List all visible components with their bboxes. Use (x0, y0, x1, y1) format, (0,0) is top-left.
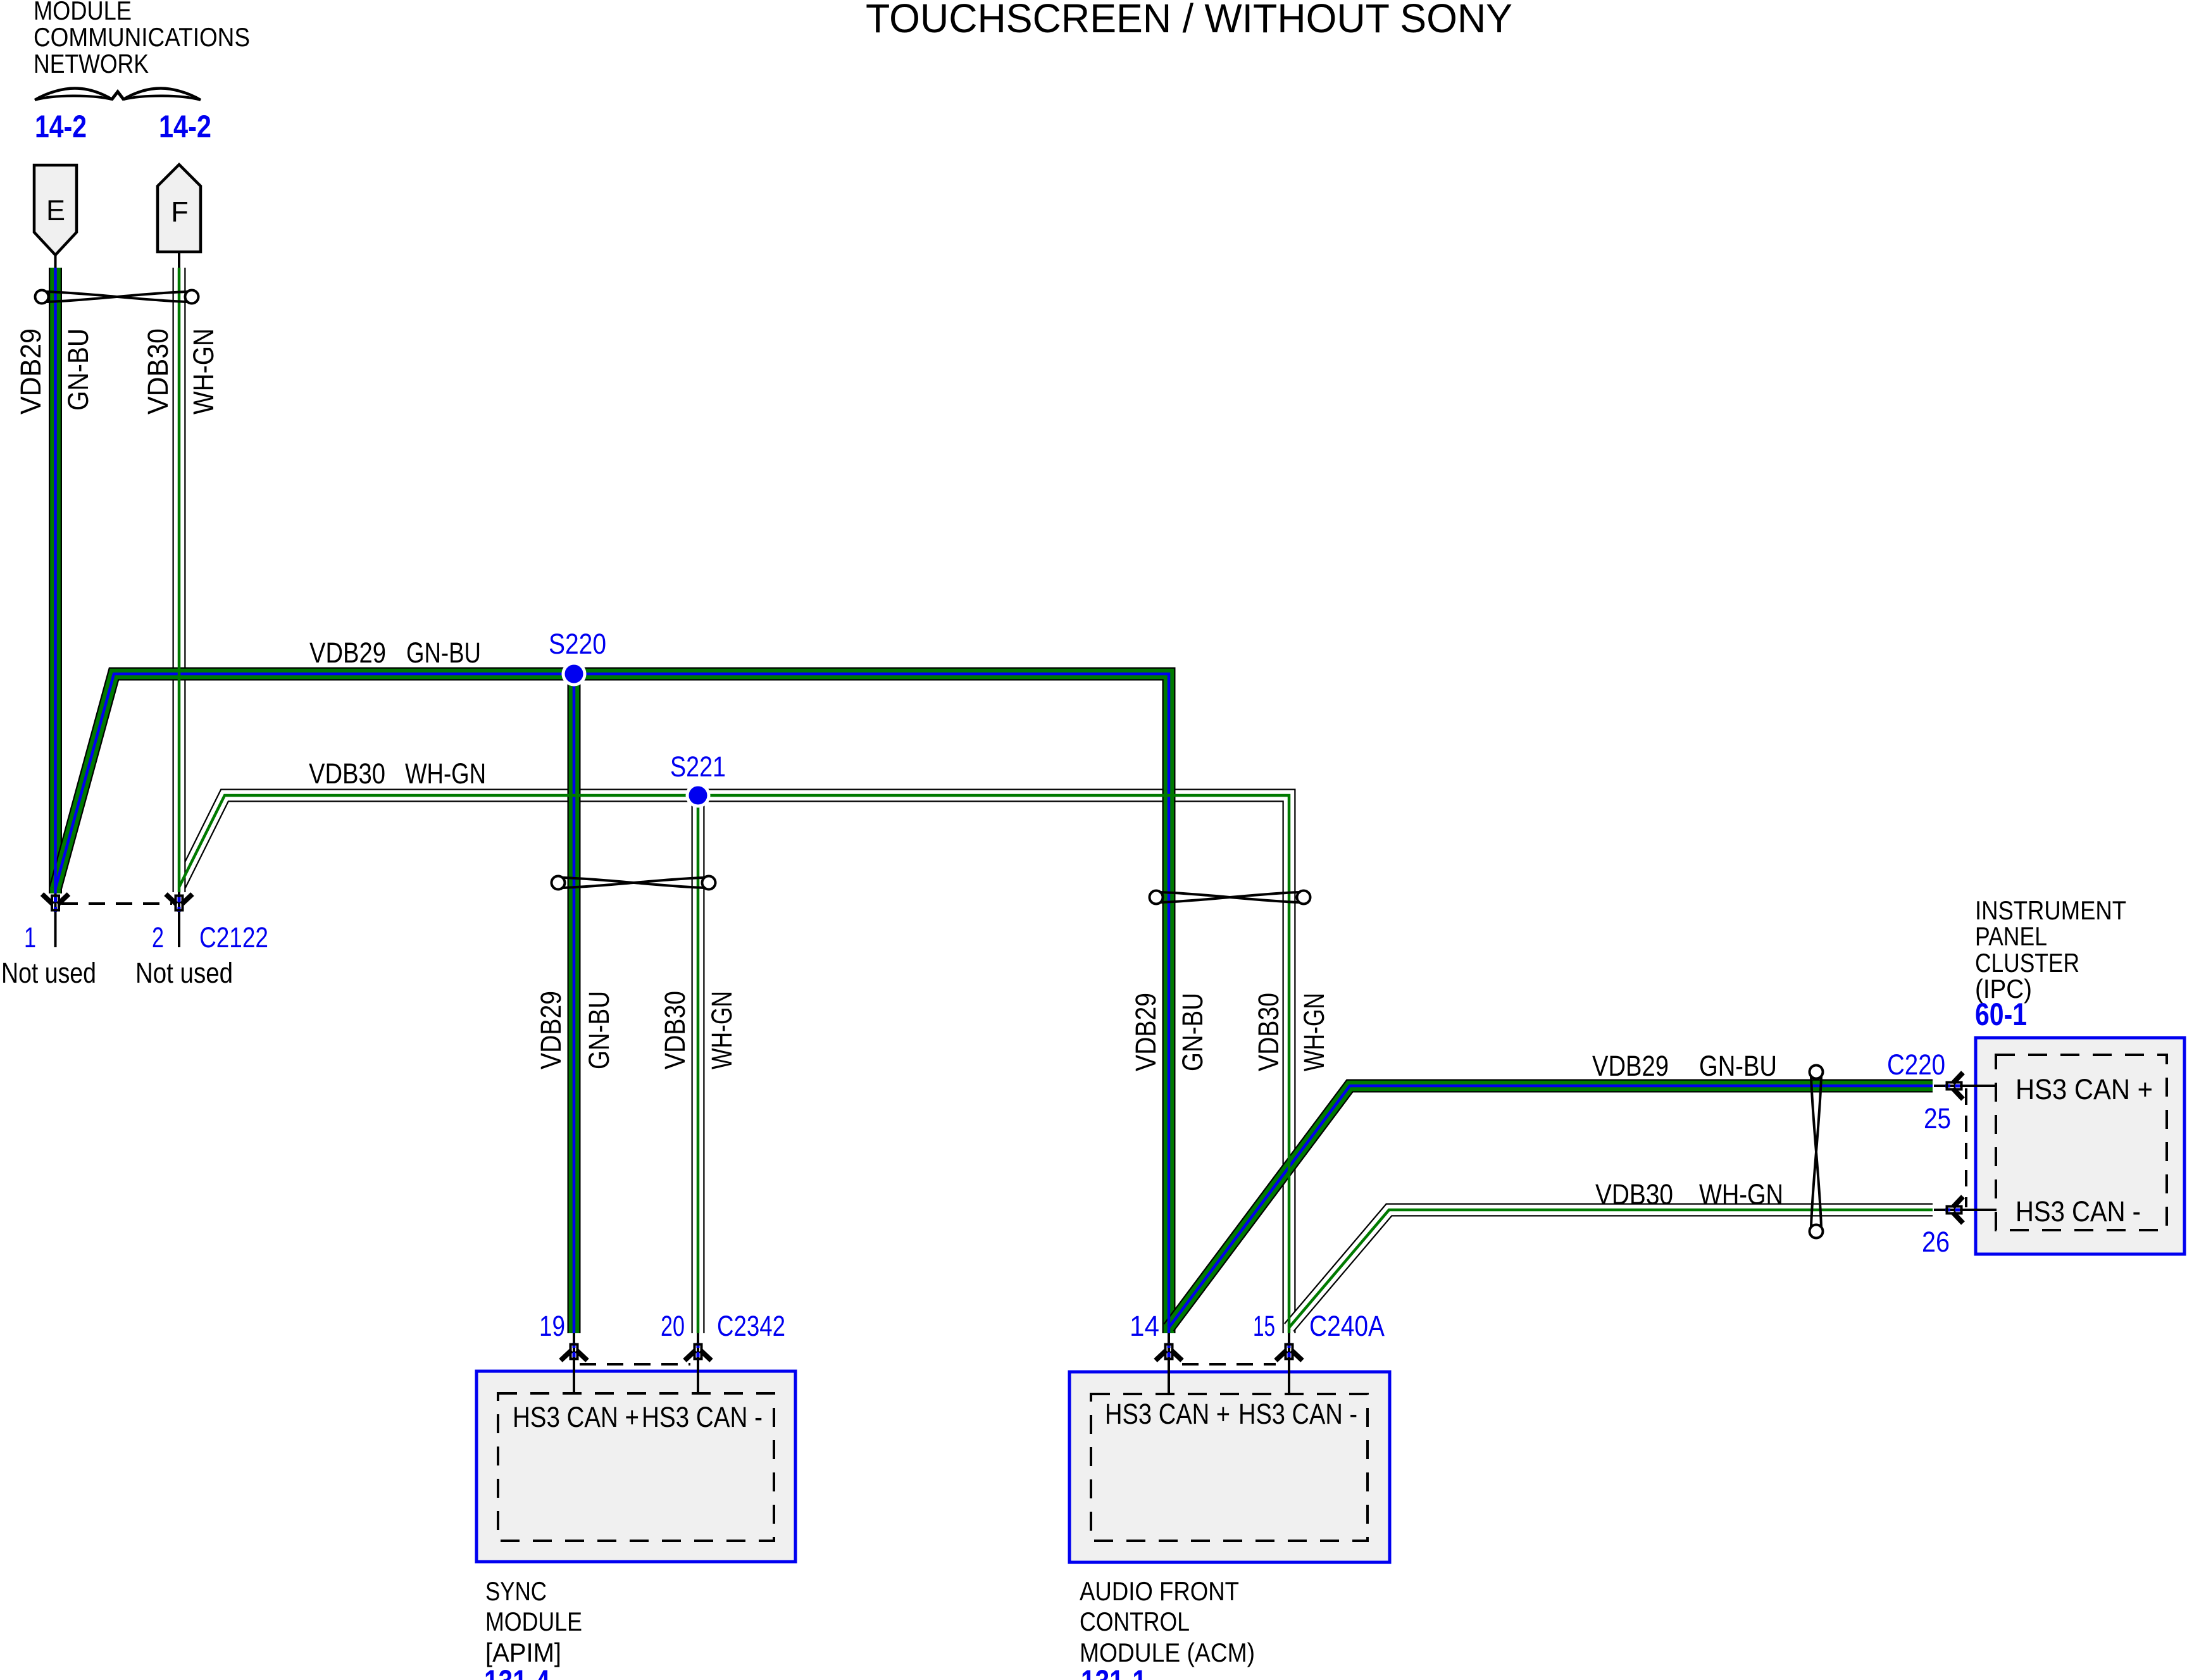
wire VDB30 WH-GN main run body (F to ACM) (179, 795, 1289, 1333)
svg-text:VDB29: VDB29 (309, 637, 386, 669)
svg-text:INSTRUMENT: INSTRUMENT (1975, 895, 2126, 925)
svg-text:WH-GN: WH-GN (187, 328, 220, 414)
svg-text:GN-BU: GN-BU (62, 328, 94, 411)
wire stripe GN (IPC run 26) (1289, 1210, 1933, 1328)
svg-text:S221: S221 (670, 750, 726, 783)
svg-text:SYNC: SYNC (485, 1576, 547, 1606)
wire label VDB29 GN-BU (top run) (309, 637, 481, 669)
svg-text:VDB30: VDB30 (142, 328, 174, 414)
terminal pin 15 (C240A) (1276, 1333, 1302, 1394)
svg-text:VDB29: VDB29 (535, 991, 567, 1069)
svg-text:HS3 CAN +: HS3 CAN + (1105, 1398, 1230, 1430)
svg-text:20: 20 (661, 1310, 685, 1342)
terminal pin 26 (C220) (1934, 1197, 1997, 1223)
svg-text:GN-BU: GN-BU (1699, 1050, 1777, 1082)
wire VDB30 WH-GN vertical body from F (173, 268, 186, 892)
splice S220 (563, 663, 585, 685)
dashed connector link C220 (1965, 1088, 1967, 1207)
wire stub from F (178, 251, 180, 268)
svg-text:14: 14 (1130, 1310, 1159, 1342)
svg-text:HS3 CAN -: HS3 CAN - (2016, 1195, 2141, 1228)
dashed connector link C240A (1182, 1363, 1276, 1366)
connector E symbol (34, 165, 77, 268)
svg-text:C240A: C240A (1309, 1310, 1385, 1342)
svg-text:TOUCHSCREEN / WITHOUT SONY: TOUCHSCREEN / WITHOUT SONY (866, 0, 1512, 41)
svg-text:S220: S220 (549, 628, 606, 660)
terminal pin 14 (C240A) (1156, 1333, 1182, 1394)
svg-text:MODULE: MODULE (485, 1607, 582, 1636)
SYNC module box (477, 1371, 795, 1562)
svg-text:Not used: Not used (1, 957, 96, 989)
svg-text:14-2: 14-2 (159, 109, 211, 144)
ACM module box (1069, 1372, 1390, 1562)
svg-text:[APIM]: [APIM] (485, 1638, 561, 1667)
wire stripe BU (IPC run 25) (1169, 1086, 1933, 1328)
svg-text:C2342: C2342 (717, 1310, 785, 1342)
wire stripe GN (S221 drop) (697, 795, 700, 1333)
wire label VDB30 WH-GN (IPC run) (1595, 1178, 1783, 1210)
connector F symbol (158, 165, 201, 268)
svg-text:2: 2 (152, 921, 164, 954)
SYNC module label (484, 1576, 582, 1680)
ACM module label (1080, 1576, 1255, 1680)
svg-text:15: 15 (1253, 1310, 1275, 1342)
svg-text:1: 1 (24, 921, 36, 954)
svg-text:131-1: 131-1 (1081, 1664, 1147, 1680)
svg-text:WH-GN: WH-GN (1699, 1178, 1783, 1210)
wire VDB30 WH-GN run body to IPC pin 26 (1289, 1210, 1933, 1328)
svg-text:VDB30: VDB30 (309, 757, 385, 790)
svg-text:NETWORK: NETWORK (34, 49, 149, 78)
terminal pin 20 (C2342) (685, 1333, 711, 1393)
svg-text:Not used: Not used (135, 957, 233, 989)
wire stub from E (54, 254, 57, 268)
wire stripe GN (WH-GN main run) (179, 795, 1289, 1333)
label MODULE COMMUNICATIONS NETWORK (34, 0, 250, 78)
terminal pin 25 (C220) (1934, 1073, 1997, 1099)
svg-text:HS3 CAN +: HS3 CAN + (513, 1401, 639, 1433)
twisted pair symbol TP3 (ACM drops) (1150, 891, 1311, 904)
wire stripe GN (F vertical) (178, 268, 181, 892)
brace (35, 89, 201, 101)
svg-text:60-1: 60-1 (1975, 997, 2027, 1032)
svg-text:C2122: C2122 (199, 921, 268, 954)
svg-text:VDB30: VDB30 (1252, 993, 1285, 1071)
wire VDB29 GN-BU vertical body from E (49, 268, 62, 893)
svg-text:VDB29: VDB29 (15, 328, 47, 414)
svg-text:26: 26 (1922, 1226, 1950, 1258)
svg-text:VDB29: VDB29 (1130, 993, 1162, 1071)
dashed connector link C2122 (61, 902, 172, 905)
svg-text:C220: C220 (1887, 1048, 1945, 1081)
wire label VDB29 GN-BU (IPC run) (1592, 1050, 1777, 1082)
IPC module box (1976, 1038, 2184, 1254)
wire VDB29 GN-BU run body to IPC pin 25 (1169, 1086, 1933, 1328)
svg-text:WH-GN: WH-GN (405, 757, 486, 790)
dashed connector link C2342 (580, 1363, 690, 1366)
svg-text:WH-GN: WH-GN (1298, 993, 1330, 1071)
svg-text:GN-BU: GN-BU (583, 991, 615, 1069)
svg-text:F: F (171, 196, 189, 228)
svg-text:HS3 CAN -: HS3 CAN - (642, 1401, 763, 1433)
wire VDB29 GN-BU drop body from S220 to pin 19 (568, 674, 581, 1333)
svg-text:MODULE: MODULE (34, 0, 132, 25)
wire VDB30 WH-GN drop body from S221 to pin 20 (692, 795, 705, 1333)
svg-text:VDB30: VDB30 (1595, 1178, 1673, 1210)
terminal pin 1 (C2122) (42, 893, 69, 947)
svg-text:19: 19 (539, 1310, 565, 1342)
svg-text:131-4: 131-4 (484, 1664, 550, 1680)
svg-text:PANEL: PANEL (1975, 921, 2047, 951)
svg-text:E: E (46, 194, 65, 227)
terminal pin 19 (C2342) (561, 1333, 587, 1393)
wire VDB29 GN-BU main run body (E to ACM) (56, 674, 1169, 1333)
svg-text:CONTROL: CONTROL (1080, 1607, 1190, 1636)
svg-text:AUDIO FRONT: AUDIO FRONT (1080, 1576, 1239, 1606)
svg-text:MODULE (ACM): MODULE (ACM) (1080, 1638, 1255, 1667)
svg-text:HS3 CAN +: HS3 CAN + (2016, 1073, 2153, 1105)
svg-text:CLUSTER: CLUSTER (1975, 948, 2079, 978)
svg-text:VDB30: VDB30 (659, 991, 691, 1069)
svg-text:GN-BU: GN-BU (406, 637, 481, 669)
IPC module label (1975, 895, 2126, 1032)
twisted pair symbol TP4 (IPC runs, vertical) (1810, 1066, 1823, 1238)
svg-text:25: 25 (1924, 1102, 1951, 1135)
wire stripe BU (E vertical) (54, 268, 57, 893)
svg-text:HS3 CAN -: HS3 CAN - (1238, 1398, 1357, 1430)
svg-text:14-2: 14-2 (35, 109, 87, 144)
wire stripe BU (main run) (56, 674, 1169, 1333)
wire label VDB30 WH-GN (second run) (309, 757, 486, 790)
terminal pin 2 (C2122) (166, 892, 192, 947)
svg-text:WH-GN: WH-GN (706, 991, 738, 1069)
wire stripe BU (S220 drop) (573, 674, 576, 1333)
svg-text:GN-BU: GN-BU (1176, 993, 1209, 1071)
twisted pair symbol TP1 (E/F wires) (35, 290, 199, 304)
twisted pair symbol TP2 (S220/S221 drops) (552, 876, 716, 890)
svg-text:COMMUNICATIONS: COMMUNICATIONS (34, 22, 250, 52)
svg-text:VDB29: VDB29 (1592, 1050, 1669, 1082)
splice S221 (687, 785, 709, 806)
